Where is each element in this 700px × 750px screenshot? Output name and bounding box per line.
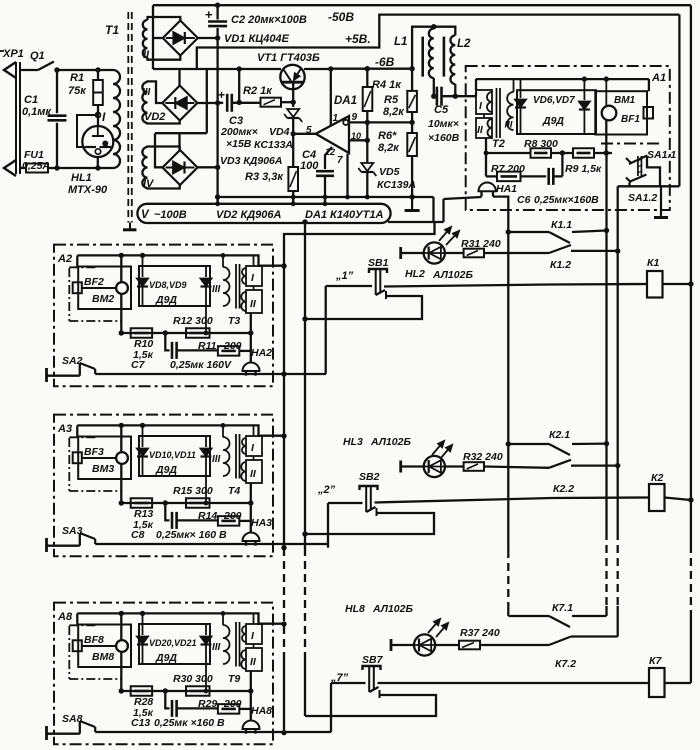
svg-text:×15В: ×15В: [226, 138, 252, 150]
SB7 contact stub: [379, 690, 381, 698]
resistor R28: [131, 686, 152, 696]
A1 inner top wire: [476, 78, 649, 80]
wire diode 2 down: [205, 645, 207, 691]
diode VD8: [137, 279, 148, 287]
svg-text:Т4: Т4: [228, 485, 240, 497]
capacitor С8: [171, 512, 174, 529]
wire C5 into A1 to winding I: [475, 92, 477, 96]
switch SA1.2: [626, 178, 631, 183]
bridge IV wiring: [148, 147, 180, 151]
ground SA1: [660, 186, 662, 217]
top rail -50V: [153, 4, 691, 6]
diode box VD20,VD21: [139, 624, 210, 664]
wire bridge III right vertex to bus: [197, 102, 217, 104]
svg-text:DA1: DA1: [334, 95, 357, 107]
T2 core: [496, 88, 498, 138]
wire inner top to T2: [475, 79, 477, 90]
svg-text:III: III: [212, 284, 221, 295]
svg-text:А8: А8: [57, 611, 73, 623]
earpiece BF3 symbol: [73, 452, 82, 463]
svg-text:+: +: [205, 7, 213, 22]
svg-text:К7.1: К7.1: [552, 602, 573, 614]
wire SB7 down to A8 rail: [330, 683, 332, 732]
rail drop to handset box: [76, 613, 78, 624]
svg-text:R6*: R6*: [378, 130, 397, 142]
zener VD5: [361, 163, 373, 171]
wire L2 bottom: [454, 84, 456, 96]
svg-text:R15 300: R15 300: [173, 485, 213, 497]
svg-text:+5В.: +5В.: [345, 32, 371, 46]
svg-text:ВМ1: ВМ1: [614, 95, 636, 106]
wire diode 2 top: [205, 436, 207, 447]
svg-text:0,25мк ×160 В: 0,25мк ×160 В: [154, 717, 225, 729]
diode box VD8,VD9: [139, 266, 210, 306]
node SB1 return: [302, 316, 307, 321]
buzzer НА2: [243, 363, 260, 372]
wire pin 7: [346, 154, 348, 197]
wire ВМ8 bottom: [120, 652, 122, 691]
terminal pin: [45, 538, 48, 552]
wire R3 to rail: [292, 191, 294, 204]
thyratron HL1: [82, 126, 113, 157]
main DC bus: [216, 5, 218, 19]
transformer T2 winding II: [476, 118, 492, 138]
svg-text:SB1: SB1: [368, 257, 389, 269]
wire VD6 bottom: [520, 108, 522, 134]
block А2 border: [54, 245, 273, 387]
node HL1 bottom: [95, 165, 100, 170]
wire ВМ2 bottom: [120, 294, 122, 333]
HL1 cathode wire: [97, 157, 99, 168]
wire C1 to bottom rail: [56, 123, 58, 168]
svg-text:R12 300: R12 300: [173, 315, 213, 327]
wire +5V rail down to SA1: [678, 15, 680, 187]
node pin10: [365, 138, 370, 143]
wire T2 I-II link: [483, 114, 485, 118]
svg-text:10: 10: [351, 131, 361, 141]
resistor R31: [464, 249, 484, 258]
svg-text:НА3: НА3: [251, 517, 272, 529]
node C5 left: [431, 94, 436, 99]
-6V rail: [153, 68, 281, 70]
svg-text:0,25мк×160В: 0,25мк×160В: [534, 194, 599, 206]
svg-text:200мк×: 200мк×: [220, 126, 258, 138]
node A2 feed: [281, 263, 286, 268]
svg-text:Д9Д: Д9Д: [542, 115, 564, 127]
T1 core: [127, 12, 129, 223]
svg-text:BF3: BF3: [84, 446, 104, 458]
wire C5 to T2: [442, 95, 476, 97]
resistor R9: [573, 148, 594, 158]
wire pin 5: [293, 133, 316, 135]
bridge II wiring: [148, 17, 181, 21]
wire T2 III top to A1 top wire: [513, 79, 515, 92]
SA1 mechanical link: [637, 156, 639, 176]
wire to R5: [411, 69, 413, 91]
svg-text:L2: L2: [457, 38, 471, 50]
svg-text:К1: К1: [647, 257, 659, 269]
svg-text:SA1.2: SA1.2: [628, 192, 657, 204]
wire diode 2 down: [205, 287, 207, 333]
svg-text:BF2: BF2: [84, 276, 104, 288]
capacitor C2: [208, 20, 227, 23]
terminal pin: [45, 368, 48, 382]
rectifier bridge VD2: [162, 86, 197, 121]
node bus284 on A8 rail: [281, 730, 286, 735]
handset box BF8 ВМ8: [78, 625, 131, 668]
wire pin 12 to C4: [325, 147, 332, 169]
svg-text:КС139А: КС139А: [377, 179, 416, 191]
rail drop to handset box: [76, 255, 78, 266]
SB2 contact stub: [376, 508, 378, 516]
wire bridge II left vertex to top rail and -6 line: [152, 5, 154, 69]
svg-text:-6В: -6В: [375, 55, 395, 69]
svg-text:К1.1: К1.1: [551, 219, 572, 231]
wire to НА3: [250, 503, 252, 533]
svg-text:VD4: VD4: [269, 126, 290, 138]
svg-text:VD20,VD21: VD20,VD21: [149, 638, 197, 648]
svg-text:HL2: HL2: [405, 268, 425, 280]
resistor R14: [218, 516, 239, 526]
VT1 collector wire: [292, 82, 294, 102]
svg-text:R30 300: R30 300: [173, 673, 213, 685]
svg-text:R2 1к: R2 1к: [243, 85, 273, 97]
wire Q1 to T1 winding I top: [57, 69, 113, 71]
svg-text:SA3: SA3: [62, 525, 83, 537]
svg-text:С6: С6: [517, 194, 531, 206]
wire SA1.2 output to bus: [618, 185, 680, 187]
wire ВМ3 top: [120, 425, 122, 452]
node ground: [409, 194, 414, 199]
wire BF8 to ВМ8: [82, 645, 116, 647]
wire VD7 bottom: [583, 110, 585, 134]
svg-text:НА8: НА8: [251, 705, 272, 717]
HL3 arrow 2: [440, 445, 452, 459]
wire to C5: [434, 95, 437, 97]
node R4 top: [365, 66, 370, 71]
wire HA1 branch down: [442, 199, 444, 222]
svg-text:АЛ102Б: АЛ102Б: [372, 603, 413, 615]
microphone ВМ8: [116, 640, 128, 652]
pin 9 inversion circle: [343, 120, 348, 125]
rail drop to handset box: [76, 425, 78, 436]
wire SB1 to A2 rail: [325, 286, 327, 374]
wire R6 to rail: [411, 156, 413, 197]
diode VD10: [137, 449, 148, 457]
wire to R1: [97, 70, 99, 80]
node BM1/R9: [604, 150, 609, 155]
node K2.1 tap: [506, 441, 511, 446]
wire L1 bottom: [433, 78, 435, 96]
-6V chain brackets: [206, 69, 208, 133]
switch Q1 blade: [38, 62, 54, 71]
wire XP1 top to Q1: [20, 69, 38, 71]
wire diode 2 top: [205, 624, 207, 635]
svg-text:С1: С1: [24, 94, 38, 106]
wire ВМ8 top: [120, 613, 122, 640]
diode VD6: [515, 100, 526, 108]
svg-text:BF8: BF8: [84, 634, 104, 646]
svg-text:VD6,VD7: VD6,VD7: [533, 95, 575, 106]
wire HA1 right foot to bus: [493, 197, 508, 232]
svg-text:VD2: VD2: [144, 111, 165, 123]
wire winding II to R8: [486, 152, 531, 154]
LED HL8: [390, 639, 393, 651]
T1 winding IV: [142, 147, 147, 188]
wire pin 1: [330, 69, 332, 126]
wire FU1 to T1 winding I bottom: [48, 167, 113, 169]
svg-text:ВМ3: ВМ3: [92, 463, 114, 475]
rectifier bridge VD3: [163, 150, 198, 185]
wire diode 1 top: [142, 425, 144, 447]
svg-text:HL8: HL8: [345, 603, 365, 615]
T1 winding II: [143, 20, 148, 58]
VT1 collector arrow: [294, 68, 302, 80]
transformer Т3 core: [235, 264, 237, 309]
wire to R4: [366, 69, 368, 87]
svg-text:Q1: Q1: [30, 50, 45, 62]
wire R8 to R9: [551, 152, 573, 154]
wire diode 1 top: [142, 613, 144, 635]
svg-text:R11: R11: [198, 340, 217, 352]
svg-text:SB7: SB7: [362, 654, 384, 666]
transformer Т9 winding II: [246, 648, 262, 671]
wire R1 to HL1: [97, 105, 99, 126]
svg-text:К2: К2: [651, 472, 663, 484]
HL8 arrow 2: [436, 623, 448, 637]
capacitor С7 branch: [165, 333, 169, 350]
svg-text:МТХ-90: МТХ-90: [68, 184, 108, 196]
wire to C1: [56, 70, 58, 113]
diode VD20: [137, 637, 148, 645]
wire XP1 bottom to FU1: [20, 167, 26, 169]
wire VD4 to R3: [292, 119, 294, 167]
svg-text:С2 20мк×100В: С2 20мк×100В: [231, 14, 307, 26]
HL2 arrow 2: [446, 231, 459, 245]
capacitor С13 branch: [165, 691, 169, 708]
transformer Т4 winding III: [223, 437, 230, 476]
diode VD7: [579, 102, 590, 110]
mid rail of А8: [121, 690, 251, 692]
HL1 internals: [97, 126, 99, 136]
switch SA2 blade: [80, 363, 95, 369]
T1 winding III: [142, 82, 147, 123]
svg-text:К7: К7: [649, 655, 662, 667]
svg-text:ВМ8: ВМ8: [92, 651, 114, 663]
wire VD7 top: [583, 79, 585, 100]
wire HA1 to rail: [444, 197, 482, 199]
svg-text:R37 240: R37 240: [460, 627, 500, 639]
svg-text:С5: С5: [434, 104, 449, 116]
wire BF3 to ВМ3: [82, 457, 116, 459]
svg-text:А2: А2: [57, 253, 72, 265]
switch SA3 blade: [80, 533, 95, 539]
SB1 contact stub: [385, 291, 387, 299]
earpiece BF8 symbol: [73, 640, 82, 651]
node K2.1 right: [604, 441, 609, 446]
node C2 minus: [215, 35, 220, 40]
svg-text:8,2к: 8,2к: [383, 106, 405, 118]
winding II bottom wire: [250, 313, 252, 333]
winding II bottom wire: [250, 483, 252, 503]
А3 top rail: [77, 425, 284, 435]
HL3 arrow 1: [432, 441, 444, 455]
svg-text:R4 1к: R4 1к: [372, 79, 402, 91]
transformer Т3 winding I: [246, 266, 262, 286]
svg-text:0,25мк 160V: 0,25мк 160V: [170, 359, 232, 371]
svg-text:А1: А1: [651, 72, 666, 84]
resistor R11: [218, 346, 239, 356]
fuse FU1: [26, 164, 48, 173]
svg-text:С7: С7: [131, 359, 146, 371]
node A3 feed: [281, 433, 286, 438]
svg-text:Д9Д: Д9Д: [155, 464, 177, 476]
node A8 feed: [281, 621, 286, 626]
node K1.1 right: [604, 228, 609, 233]
node bridge VD2 out: [215, 100, 220, 105]
capacitor С7: [171, 342, 174, 359]
resistor R10: [131, 328, 152, 338]
wire node down to C6: [561, 153, 563, 176]
svg-text:Д9Д: Д9Д: [155, 294, 177, 306]
microphone ВМ3: [116, 452, 128, 464]
bus right edge (-50V to relay coils): [690, 5, 692, 545]
svg-text:Т1: Т1: [105, 23, 119, 37]
capacitor С8 branch: [165, 503, 169, 520]
wire SA1.1 output: [647, 156, 660, 187]
winding I top wire: [253, 613, 255, 624]
transformer Т9 winding III: [223, 625, 230, 664]
wire HL3 to R32: [445, 465, 464, 467]
T1 core ground: [129, 223, 131, 230]
capacitor C1: [48, 114, 67, 117]
wire R4 down: [366, 111, 368, 163]
svg-text:×160В: ×160В: [428, 132, 460, 144]
svg-text:Т3: Т3: [228, 315, 240, 327]
XP1 arrow top: [4, 62, 16, 78]
svg-text:К1.2: К1.2: [550, 259, 571, 271]
svg-text:„1”: „1”: [335, 270, 354, 282]
earpiece BF2 symbol: [73, 282, 82, 293]
node: [237, 100, 242, 105]
diode box VD6 VD7: [517, 90, 596, 134]
rectifier bridge VD1 (winding II): [163, 21, 198, 56]
wire R2 to VT1 collector: [281, 101, 293, 103]
transformer Т9 core: [235, 622, 237, 667]
wire bridge III top vertex up: [178, 69, 180, 86]
node bridge VD3 out: [215, 165, 220, 170]
svg-text:0,25мк× 160 В: 0,25мк× 160 В: [156, 529, 227, 541]
svg-text:VD2 КД906А: VD2 КД906А: [216, 209, 282, 221]
svg-text:SA1.1: SA1.1: [647, 149, 676, 161]
svg-text:R3 3,3к: R3 3,3к: [245, 171, 284, 183]
node K2.2 right: [615, 463, 620, 468]
node SB2 return: [302, 531, 307, 536]
wire SB2 to A3 rail: [327, 503, 329, 548]
node L1 top: [431, 24, 436, 29]
wire BM1 bottom to R9 node: [605, 120, 607, 153]
wire bridge II right vertex to bus: [198, 37, 218, 39]
wire C4 to rail: [324, 176, 326, 197]
transformer Т4 winding I: [246, 436, 262, 456]
HL8 arrow 1: [428, 619, 440, 633]
svg-text:НА2: НА2: [251, 347, 272, 359]
svg-text:SA8: SA8: [62, 713, 83, 725]
switch SA8 blade: [80, 721, 95, 727]
svg-text:Т2: Т2: [492, 138, 505, 150]
switch SA1.1: [626, 158, 631, 163]
wire SB1 to K1 coil (left part): [384, 285, 550, 287]
transformer T2 winding I: [476, 90, 492, 114]
svg-text:SB2: SB2: [359, 471, 380, 483]
XP1 arrow bottom: [4, 160, 16, 176]
transistor VT1: [280, 65, 304, 89]
wire SB1 left lead: [326, 285, 372, 287]
node grid (open): [96, 113, 101, 118]
svg-text:III: III: [212, 642, 221, 653]
svg-text:10мк×: 10мк×: [428, 118, 459, 130]
node pin9/R4: [365, 120, 370, 125]
transformer Т3 winding III: [223, 267, 230, 306]
mid rail of А2: [121, 332, 251, 334]
transformer Т4 winding II: [246, 460, 262, 483]
buzzer НА8: [243, 721, 260, 730]
T1 primary winding I: [113, 70, 120, 168]
svg-text:R1: R1: [70, 72, 84, 84]
wire BM1 top: [605, 79, 607, 106]
VT1 base bar: [282, 81, 304, 84]
transformer Т3 winding II: [246, 290, 262, 313]
wire pin 9: [348, 121, 412, 123]
microphone BM1: [602, 106, 617, 121]
wire VD6 top: [520, 79, 522, 98]
wire R37 to K7.2: [480, 644, 549, 646]
svg-text:VD10,VD11: VD10,VD11: [149, 450, 196, 460]
svg-text:VD5: VD5: [379, 166, 400, 178]
resistor R37: [459, 641, 480, 650]
wire R7 to C6: [521, 175, 547, 177]
svg-text:АЛ102Б: АЛ102Б: [370, 436, 411, 448]
svg-text:+: +: [218, 88, 225, 102]
svg-text:SA2: SA2: [62, 355, 83, 367]
buzzer НА3: [243, 533, 260, 542]
node R5/R6/pin9: [409, 120, 414, 125]
svg-text:III: III: [212, 454, 221, 465]
L2 core bar: [443, 37, 446, 77]
wire SB7 left lead: [331, 682, 366, 684]
resistor R3: [288, 167, 298, 191]
tick before XP1: [0, 50, 4, 52]
svg-text:R9 1,5к: R9 1,5к: [565, 163, 602, 175]
svg-text:L1: L1: [394, 36, 407, 48]
svg-text:7: 7: [337, 155, 343, 166]
svg-text:„2”: „2”: [317, 484, 336, 496]
handset dash-dot enclosure: [69, 266, 97, 268]
wire diode 1 top: [142, 255, 144, 277]
resistor R1: [93, 80, 103, 105]
wire SB7 to K7 coil: [378, 682, 650, 684]
winding II bottom wire: [250, 671, 252, 691]
svg-text:НА1: НА1: [496, 183, 517, 195]
wire VD5 to rail: [366, 173, 368, 197]
node bus/bottom rail: [215, 194, 220, 199]
node A3 return: [281, 545, 286, 550]
wire R32 to K2.2: [484, 467, 549, 468]
svg-text:С13: С13: [131, 717, 150, 729]
wire HL2 to R31: [445, 252, 464, 254]
inductor L2: [450, 35, 455, 84]
node A2 return: [281, 371, 286, 376]
